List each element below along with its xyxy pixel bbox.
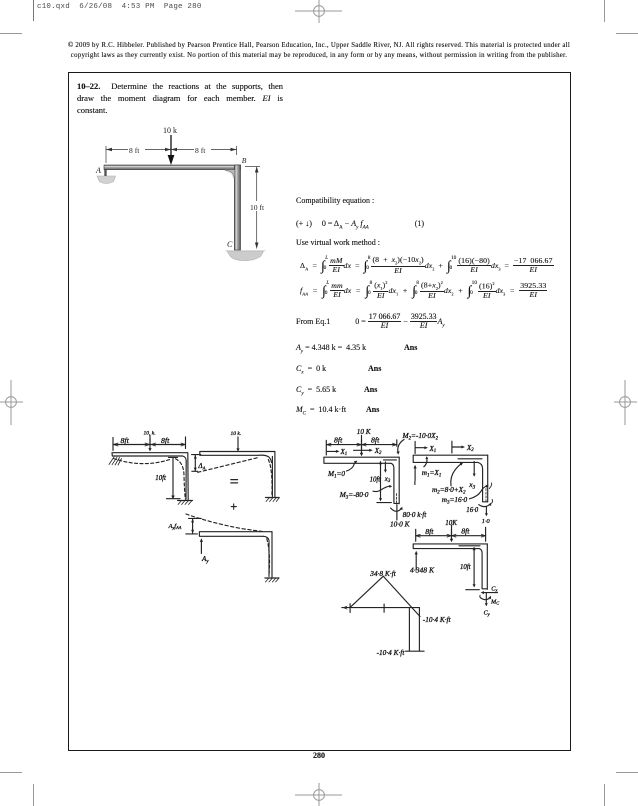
header slug vertical rule xyxy=(33,0,34,21)
svg-text:10·0 K: 10·0 K xyxy=(390,519,411,528)
beam xyxy=(200,452,275,456)
equals xyxy=(231,480,238,483)
equation (1) xyxy=(296,219,424,231)
copyright two-line notice xyxy=(0,41,638,61)
horizontal member xyxy=(104,165,241,170)
dashed deflection xyxy=(198,458,259,473)
column xyxy=(479,544,487,590)
beam xyxy=(199,532,272,537)
inner 10ft dim arrow xyxy=(169,457,178,497)
svg-text:8ft: 8ft xyxy=(121,436,130,445)
svg-text:Cy: Cy xyxy=(484,609,490,616)
svg-text:Cx: Cx xyxy=(491,585,497,592)
svg-text:x3: x3 xyxy=(468,480,475,491)
svg-text:10ft: 10ft xyxy=(370,476,382,483)
column xyxy=(478,455,488,502)
Cx arrow xyxy=(483,592,498,594)
beam xyxy=(413,455,488,462)
svg-text:m1=X1: m1=X1 xyxy=(422,468,441,479)
svg-text:1·0: 1·0 xyxy=(482,518,491,525)
main content box xyxy=(68,72,571,751)
svg-text:X1: X1 xyxy=(340,449,348,457)
use virtual work method xyxy=(296,238,380,247)
plus xyxy=(231,504,236,509)
baseline xyxy=(342,607,420,609)
x3 arrow xyxy=(384,462,386,471)
printed figure xyxy=(88,122,278,267)
svg-text:10ft: 10ft xyxy=(155,475,167,482)
beam xyxy=(324,457,399,463)
answer lines xyxy=(296,343,366,355)
svg-text:X2: X2 xyxy=(466,445,474,453)
beam xyxy=(413,544,487,549)
svg-text:M3=-80·0: M3=-80·0 xyxy=(339,490,369,501)
svg-text:10 K: 10 K xyxy=(357,428,372,436)
svg-text:x3: x3 xyxy=(384,476,391,484)
svg-text:AyfAA: AyfAA xyxy=(168,523,182,530)
crop mark bottom-right vertical xyxy=(604,784,605,806)
dim line xyxy=(416,527,486,541)
bottom moment arc + force xyxy=(391,508,402,511)
registration mark right-center xyxy=(612,379,638,427)
crop mark bottom-left horizontal xyxy=(0,772,22,773)
header slug line xyxy=(37,3,202,11)
svg-text:8ft: 8ft xyxy=(371,436,380,445)
inner dim xyxy=(473,548,475,586)
delta arrow xyxy=(192,455,201,472)
load arrow xyxy=(170,135,172,158)
ground blob at C xyxy=(225,251,265,261)
svg-text:-10·4 K·ft: -10·4 K·ft xyxy=(377,648,406,657)
crop mark top-right vertical xyxy=(604,0,605,22)
crop mark bottom-right horizontal xyxy=(616,772,638,773)
support A hatching xyxy=(109,457,122,465)
svg-text:ΔA: ΔA xyxy=(197,462,205,471)
svg-text:m3=16·0: m3=16·0 xyxy=(442,495,468,506)
svg-text:X1: X1 xyxy=(429,446,437,454)
column xyxy=(269,532,272,578)
x1 x2 arrows xyxy=(327,450,337,452)
deflection dashes xyxy=(114,459,172,464)
inner dim arrow xyxy=(380,462,382,500)
dim line xyxy=(113,437,186,451)
dim line xyxy=(326,440,397,455)
column xyxy=(272,452,275,498)
beam outline xyxy=(112,453,187,456)
problem statement xyxy=(77,81,283,117)
from eq 1 line xyxy=(296,313,445,331)
4.348 arrow xyxy=(415,553,417,570)
crop mark bottom-left vertical xyxy=(33,784,34,806)
integral equation Delta_A xyxy=(300,256,554,276)
svg-text:8ft: 8ft xyxy=(161,436,170,445)
svg-text:4·348 K: 4·348 K xyxy=(410,565,435,574)
double arrow xyxy=(186,518,202,534)
support C xyxy=(178,500,193,502)
svg-text:8ft: 8ft xyxy=(334,436,343,445)
svg-text:m2=8·0+X2: m2=8·0+X2 xyxy=(432,485,466,496)
crop mark top-left horizontal xyxy=(0,33,22,34)
svg-text:X2: X2 xyxy=(374,448,382,456)
load arrow xyxy=(149,436,151,450)
crop mark top-right horizontal xyxy=(616,33,638,34)
dashed curve xyxy=(186,514,262,531)
registration mark bottom-center xyxy=(294,782,344,806)
svg-text:8ft: 8ft xyxy=(461,527,470,536)
integral equation f_AA xyxy=(300,281,547,301)
svg-text:MC: MC xyxy=(490,598,499,605)
dimension line 8ft-8ft xyxy=(106,149,237,151)
svg-text:Ay: Ay xyxy=(201,555,209,565)
Mc arc xyxy=(480,597,490,600)
support A pedestal xyxy=(97,176,116,184)
unit load arrow xyxy=(414,467,416,481)
triangle xyxy=(350,576,420,616)
support xyxy=(265,577,279,579)
column xyxy=(391,457,399,504)
Cy arrow xyxy=(485,593,487,604)
svg-text:M1=0: M1=0 xyxy=(327,469,345,480)
bottom right arc xyxy=(479,504,490,506)
support xyxy=(266,497,280,499)
svg-text:10ft: 10ft xyxy=(460,564,472,571)
solution heading: compatibility equation xyxy=(296,196,374,205)
corner + column xyxy=(183,453,189,500)
svg-text:16·0: 16·0 xyxy=(466,507,478,514)
inner corner fillet xyxy=(225,170,235,179)
svg-text:80·0 k·ft: 80·0 k·ft xyxy=(403,510,428,519)
svg-text:10 k.: 10 k. xyxy=(231,431,242,437)
page number xyxy=(309,751,329,760)
rectangle xyxy=(406,608,425,652)
vertical member xyxy=(234,165,240,250)
svg-text:8ft: 8ft xyxy=(425,527,434,536)
svg-text:-10·4 K·ft: -10·4 K·ft xyxy=(423,615,452,624)
Ay arrow xyxy=(200,540,202,554)
registration mark left-center xyxy=(0,379,26,427)
svg-text:M2=-10·0X2: M2=-10·0X2 xyxy=(402,431,439,442)
registration mark top-center xyxy=(294,0,344,24)
vertical dimension 10 ft xyxy=(245,166,260,168)
